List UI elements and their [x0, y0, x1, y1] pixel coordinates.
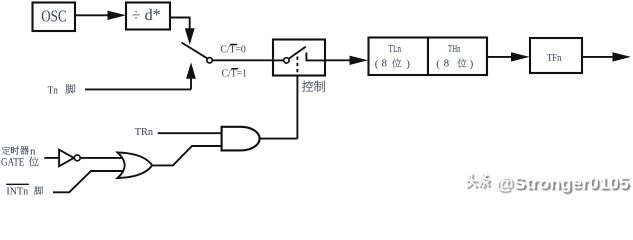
svg-text:÷ d*: ÷ d*: [132, 7, 161, 24]
wire GATE label to NOT gate: [44, 157, 60, 159]
dashed actuating line inside control box: [296, 57, 298, 76]
register THn (8 bit): [428, 38, 487, 76]
NOT gate (inverter): [59, 150, 74, 167]
svg-text:@Stronger0105: @Stronger0105: [496, 173, 629, 192]
switch S1 lever (C/T select): [182, 43, 208, 59]
svg-text:n: n: [30, 146, 36, 158]
wire switch S1 to control box: [212, 59, 274, 61]
wire Tn pin right then up arrow to switch: [85, 88, 191, 90]
wire OSC to divider with arrowhead: [75, 14, 110, 16]
svg-text:TLn: TLn: [389, 44, 402, 55]
block OSC: [33, 3, 76, 32]
switch S2 lever: [289, 47, 306, 59]
wire NOT gate to OR upper input: [80, 157, 126, 159]
switch S2 fixed contact: [305, 53, 307, 61]
svg-text:C/T=0: C/T=0: [220, 44, 245, 55]
register TLn (8 bit): [369, 38, 429, 76]
NOT gate bubble: [74, 155, 80, 161]
svg-text:(: (: [436, 58, 440, 70]
wire TRn to AND gate: [158, 132, 222, 134]
wire AND output right then up to control box: [260, 138, 298, 140]
label timer-n (dingshiqi n): [2, 146, 11, 154]
block divider /d*: [126, 3, 170, 30]
svg-text:8: 8: [444, 58, 450, 70]
label control (kongzhi): [302, 81, 313, 92]
label INTn pin with overline: [6, 183, 29, 185]
svg-text:C/T=1: C/T=1: [222, 69, 247, 80]
svg-text:Tn: Tn: [48, 84, 59, 96]
svg-text:GATE: GATE: [1, 156, 24, 168]
wire inside box left to contact: [274, 59, 284, 61]
switch S2 pivot circle: [284, 58, 289, 63]
wire INTn pin to OR lower input: [53, 171, 126, 192]
wire THn to TFn with arrowhead: [487, 56, 512, 58]
AND gate: [222, 127, 260, 151]
wire control box to TLn with arrowhead: [325, 59, 352, 61]
svg-text:OSC: OSC: [41, 7, 66, 26]
svg-text:): ): [470, 58, 474, 70]
svg-text:(: (: [375, 58, 379, 70]
svg-text:TFn: TFn: [547, 52, 562, 64]
svg-text:TRn: TRn: [135, 126, 154, 138]
block control switch box: [273, 40, 325, 76]
svg-text:): ): [406, 58, 410, 70]
OR gate: [118, 153, 153, 179]
watermark toutiao@Stronger0105: [0, 0, 1, 1]
switch S1 pivot circle: [207, 58, 212, 63]
wire TFn output (interrupt) with arrowhead: [582, 56, 613, 58]
svg-text:8: 8: [382, 58, 388, 70]
wire divider output, right then down arrow: [169, 17, 190, 19]
svg-text:THn: THn: [448, 44, 461, 55]
flag register TFn: [530, 38, 582, 73]
wire OR output to AND gate lower input: [152, 146, 222, 165]
svg-text:INTn: INTn: [6, 185, 28, 197]
